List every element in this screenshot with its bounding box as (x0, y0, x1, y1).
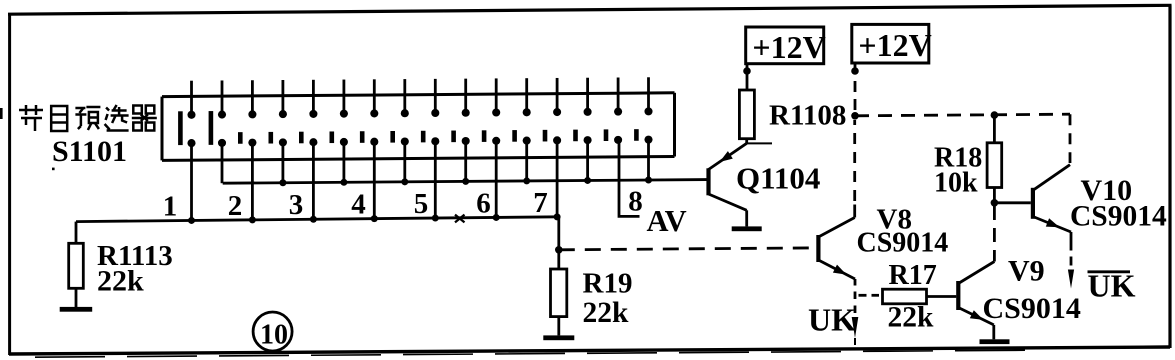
wire: dashed base line to V8 (559, 248, 813, 250)
resistor R17 (883, 289, 927, 304)
node: below +12V (left) (743, 67, 751, 75)
stub at Q1104 emitter corner (747, 142, 772, 144)
transistor V8 (NPN, CS9014) (816, 205, 855, 280)
svg-text:V9: V9 (1008, 255, 1045, 288)
svg-text:2: 2 (228, 190, 243, 222)
resistor R18 (987, 143, 1002, 188)
wire: R1113 to ground (75, 288, 78, 307)
wire: output 8 with stub to AV (619, 140, 640, 217)
wire: dashed V8 collector up to rail (853, 120, 856, 201)
wire: dashed rail horizontal (855, 114, 1070, 116)
S1101 top contact dots (187, 107, 652, 119)
svg-text:S1101: S1101 (52, 135, 127, 168)
wire: node to V10 base (994, 201, 1030, 204)
switch S1101 body (162, 93, 675, 161)
wire: V10 emitter dashed to UK-bar (1070, 257, 1073, 266)
transistor V9 (NPN, CS9014) (956, 259, 994, 340)
svg-text:6: 6 (476, 187, 491, 219)
ground (R19) (543, 335, 574, 340)
svg-text:CS9014: CS9014 (1070, 201, 1167, 233)
svg-text:CS9014: CS9014 (857, 228, 949, 259)
wire: common bus to Q1104 base (223, 180, 707, 184)
wires: S1101 outputs 1-7 down to lower bus (192, 140, 558, 220)
ground (V9) (980, 339, 1010, 344)
output arrow UK (852, 317, 859, 338)
svg-text:22k: 22k (97, 264, 144, 297)
label UK-bar (1088, 268, 1136, 304)
svg-text:UK: UK (808, 302, 856, 338)
svg-text:+12V: +12V (858, 27, 931, 63)
junction dots on lower bus (188, 213, 561, 224)
wires: S1101 even contacts down to common bus (222, 140, 649, 184)
svg-text:3: 3 (289, 189, 304, 221)
svg-text:5: 5 (414, 188, 429, 220)
wire: R1108 to Q1104 emitter (745, 139, 748, 144)
wire: output 7 down to R19 (557, 217, 560, 269)
svg-text:1: 1 (163, 191, 178, 223)
wire: junction to R18 (993, 115, 996, 143)
wire: R19 to ground (557, 317, 560, 336)
figure number 10 (circled) (253, 312, 292, 351)
wire: R18 to V9/V10 node (993, 188, 996, 203)
supply +12V (left) (746, 27, 826, 65)
svg-text:22k: 22k (888, 302, 935, 334)
resistor R19 (551, 269, 567, 317)
svg-text:UK: UK (1088, 268, 1136, 304)
wire: dashed node down to V9 collector (993, 206, 996, 259)
node: R18 top junction (991, 111, 999, 119)
x mark on lower bus (455, 215, 465, 223)
resistor R1108 (739, 90, 754, 139)
svg-text:7: 7 (533, 187, 548, 219)
svg-text:Q1104: Q1104 (736, 161, 820, 196)
S1101 bottom contact dots (187, 136, 652, 148)
transistor Q1104 (PNP) (706, 143, 746, 226)
node: dashed rail junction (851, 112, 859, 120)
wire: +12V to R1108 (746, 64, 749, 90)
wire: lower bus (outputs 1-7 common) (76, 217, 559, 222)
svg-text:4: 4 (351, 189, 366, 221)
label 节目预选器 (program preselector), hand-drawn glyphs (19, 105, 157, 131)
S1101 contact bars (178, 111, 639, 145)
wire: V8 emitter down to UK output (854, 279, 857, 345)
wire: dashed UK node to R17 (859, 294, 880, 297)
transistor V10 (NPN, CS9014) (1031, 165, 1071, 251)
svg-text:AV: AV (647, 204, 687, 238)
svg-text:R1108: R1108 (769, 100, 846, 132)
wire: dashed rail down to V10 collector (1069, 114, 1072, 163)
svg-text:+12V: +12V (752, 29, 825, 65)
svg-text:10: 10 (260, 320, 288, 351)
svg-text:R17: R17 (889, 260, 937, 291)
S1101 top pin stems (192, 77, 649, 115)
svg-text:CS9014: CS9014 (983, 292, 1081, 325)
wire: R17 to V9 base (927, 295, 957, 298)
wire: dashed +12V rail down to V8 collector (854, 63, 857, 111)
node: below +12V (right) (851, 67, 859, 75)
svg-text:8: 8 (628, 186, 643, 218)
svg-text:22k: 22k (583, 297, 630, 329)
node: junction of output 7 / R19 / dashed base line (555, 246, 563, 254)
svg-text:R19: R19 (583, 268, 633, 300)
ground (R1113) (60, 307, 92, 312)
supply +12V (right) (852, 24, 932, 63)
ground (Q1104) (732, 226, 762, 231)
junction dots on common bus (279, 177, 652, 187)
resistor R1113 (69, 243, 84, 288)
output arrow UK-bar (1068, 270, 1074, 289)
node: R18 bottom / V10 base / V9 collector (991, 199, 999, 207)
wire: lower bus to R1113 (75, 222, 78, 244)
svg-text:10k: 10k (934, 168, 978, 199)
